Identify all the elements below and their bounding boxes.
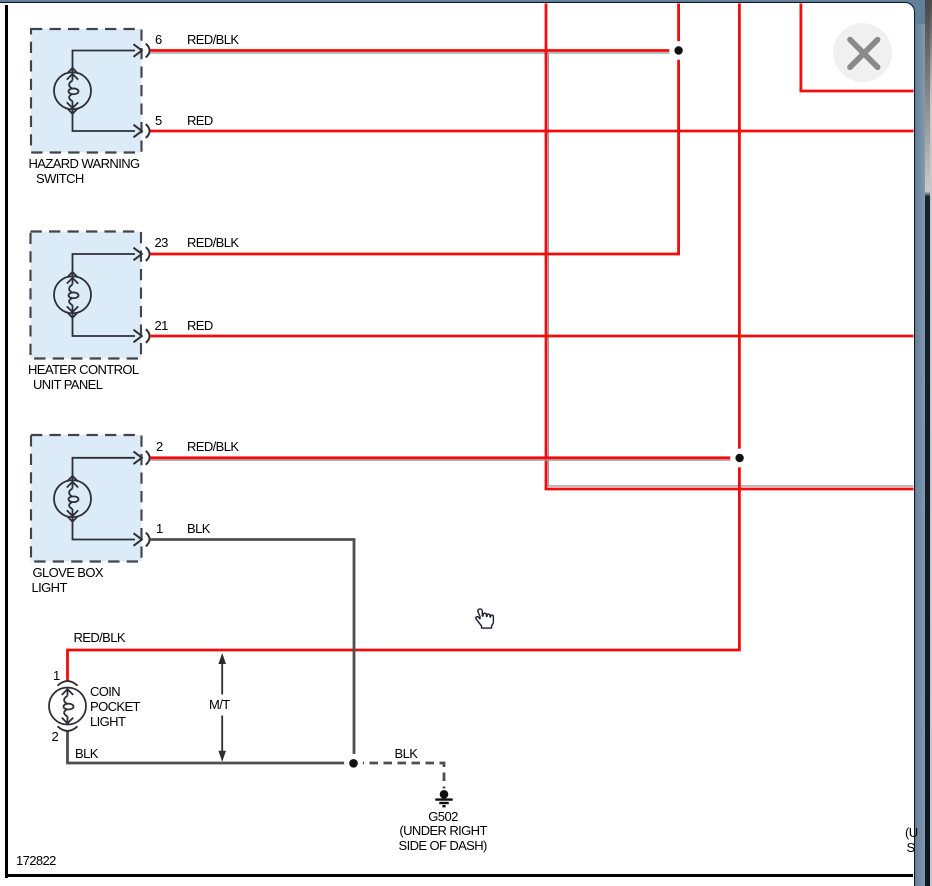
wire glove pin 1 BLK [150, 540, 354, 764]
wire color label BLK (ground lead) [395, 747, 418, 761]
pin number 23 [155, 236, 168, 250]
component label GLOVE BOX LIGHT line 2 [32, 581, 67, 595]
coin pocket pin number 2 [52, 730, 59, 744]
junction halo glove2 [730, 449, 749, 468]
hazard warning switch box [31, 29, 142, 153]
pin 1 connector [134, 533, 150, 547]
diagram frame left border [5, 5, 8, 878]
pin number 2 [156, 440, 163, 454]
component label COIN POCKET LIGHT line 3 [90, 715, 125, 729]
lamp symbol: hazard warning switch [54, 68, 91, 114]
component label COIN POCKET LIGHT line 2 [90, 700, 140, 714]
wire color label RED/BLK (glove pin 2) [187, 440, 238, 454]
ground location label line 1 [399, 824, 486, 838]
blue-gray fill behind rounded corner [890, 0, 925, 24]
component label HEATER CONTROL UNIT PANEL line 1 [28, 363, 139, 377]
mouse hand cursor [472, 603, 496, 630]
wire red vertical 4 with corner to right edge [801, 4, 914, 92]
heater control unit panel box [31, 232, 142, 359]
wire color label BLK (coin pocket) [75, 747, 98, 761]
window background blue-gray top strip [0, 0, 925, 3]
hazard internal wire pin 6 [73, 51, 136, 73]
window background blue-gray right strip [913, 0, 925, 886]
wire heater pin 21 RED [150, 335, 914, 338]
wire color label BLK (glove pin 1) [187, 522, 210, 536]
wire hazard pin 6 RED/BLK [150, 49, 679, 52]
junction halo hazard6 [669, 41, 688, 60]
right edge dark gradient strip [925, 0, 931, 886]
wire color label RED (hazard pin 5) [187, 114, 213, 128]
diagram number 172822 [16, 854, 56, 868]
close button [833, 23, 892, 82]
glove box light box [31, 435, 142, 562]
right edge light sliver [930, 0, 932, 886]
pin 21 connector [134, 329, 150, 343]
component label HAZARD WARNING SWITCH line 2 [36, 172, 84, 186]
lamp symbol: coin pocket light [49, 681, 86, 731]
junction halo BLK [344, 754, 363, 773]
component label HEATER CONTROL UNIT PANEL line 2 [33, 378, 102, 392]
component label COIN POCKET LIGHT line 1 [90, 685, 120, 699]
glove internal wire pin 2 [73, 458, 136, 480]
pin 23 connector [134, 247, 150, 261]
junction dot BLK wires [349, 759, 358, 768]
junction dot hazard6 to vertical2 [674, 46, 682, 54]
ground designator G502 [428, 810, 457, 824]
gray companion wire along vertical to right edge [548, 53, 913, 486]
component label GLOVE BOX LIGHT line 1 [33, 566, 103, 580]
hazard internal wire pin 5 [73, 109, 136, 131]
pin number 6 [155, 33, 162, 47]
diagram frame bottom border [5, 874, 913, 877]
wire color label RED (heater pin 21) [187, 319, 213, 333]
pin number 21 [155, 319, 168, 333]
wire color label RED/BLK (heater pin 23) [187, 236, 238, 250]
lamp symbol: heater control unit panel [54, 272, 91, 318]
wire dashed BLK to ground [356, 763, 445, 789]
heater internal wire pin 23 [73, 254, 136, 276]
wire red vertical 3 down to coin pocket light [68, 4, 740, 682]
coin pocket pin number 1 [53, 669, 60, 683]
wire glove pin 2 RED/BLK [150, 456, 739, 459]
ground G502 symbol [435, 790, 452, 806]
wire color label RED/BLK (hazard pin 6) [187, 33, 238, 47]
wire color label RED/BLK (coin pocket) [74, 631, 125, 645]
junction dot glove2 to vertical3 [735, 454, 743, 462]
heater internal wire pin 21 [73, 313, 136, 336]
lamp symbol: glove box light [54, 476, 91, 522]
wire coin pocket BLK [68, 731, 355, 763]
M/T range arrow [218, 653, 226, 762]
wire red vertical 1 with corner to right edge [546, 4, 914, 490]
pin number 5 [155, 114, 162, 128]
pin number 1 [156, 522, 163, 536]
clipped ground label at right edge line 1 [905, 826, 918, 840]
pin 2 connector [134, 451, 150, 465]
gray companion wire under hazard pin 6 wire [150, 52, 679, 54]
pin 5 connector [134, 124, 150, 138]
clipped ground label at right edge line 2 [907, 841, 915, 855]
wire hazard pin 5 RED [150, 130, 914, 133]
glove internal wire pin 1 [73, 517, 136, 539]
ground location label line 2 [399, 839, 487, 853]
pin 6 connector [134, 44, 150, 58]
gray companion wire under glove pin 2 wire [150, 459, 731, 461]
component label HAZARD WARNING SWITCH line 1 [29, 157, 140, 171]
M/T range label [207, 698, 232, 712]
wire red vertical 2 to heater pin 23 [150, 4, 679, 255]
